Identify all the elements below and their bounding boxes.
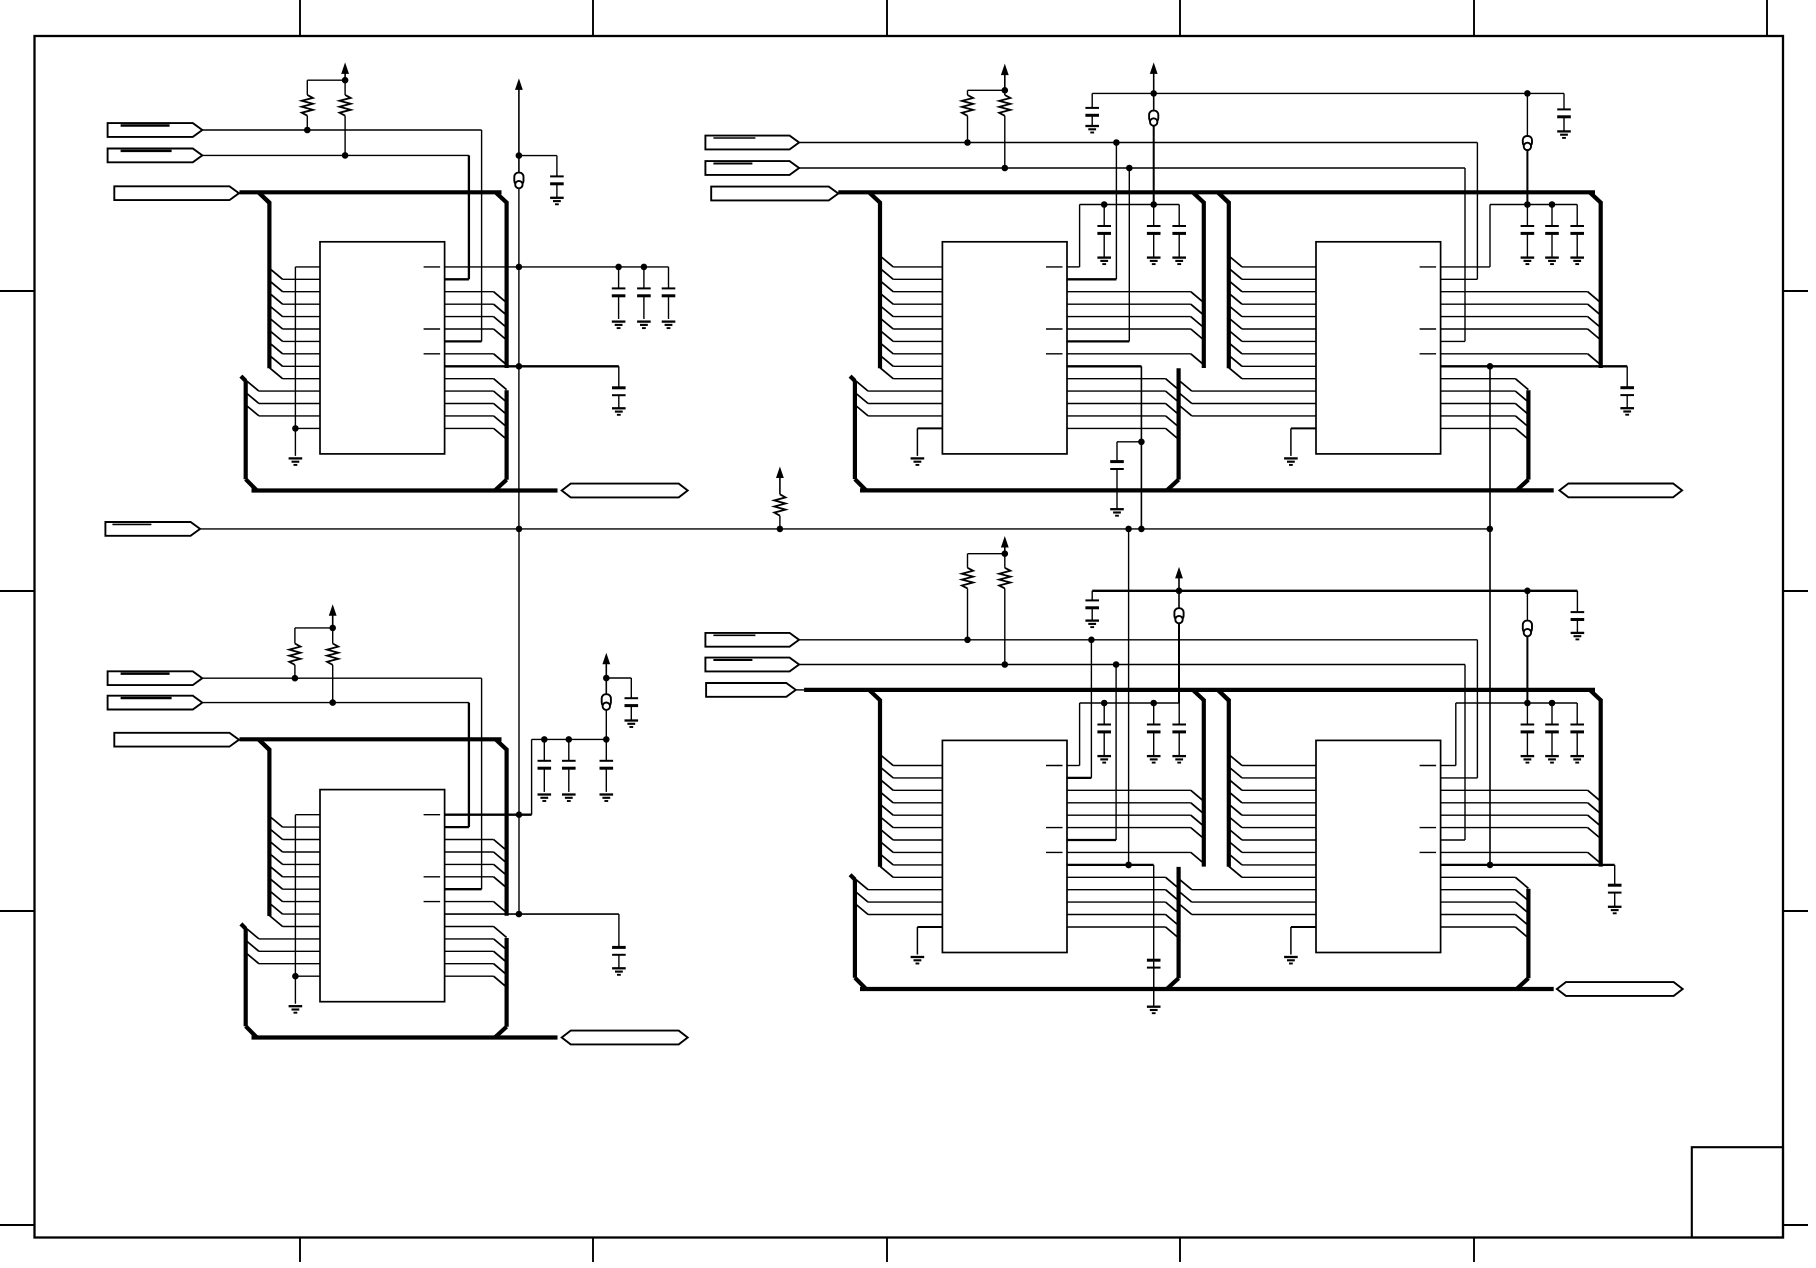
junction U2 pin 9 / VCC line (516, 911, 523, 918)
wire U1 net B horizontal (202, 154, 469, 156)
ground U2 bypass C3 (600, 795, 614, 802)
junction U2 bypass C1 (541, 736, 548, 743)
bus U3 upper-right chamfer (1193, 192, 1205, 203)
bus entries U4 left address pins (1229, 256, 1242, 379)
bus U3/U4 top horizontal (838, 190, 1595, 194)
wire U1 pull-up tops (307, 80, 345, 95)
wire U3 R-A bottom (967, 116, 969, 143)
bus U5 upper-left chamfer (869, 690, 881, 701)
wire U1 pin row 14 (295, 427, 320, 429)
bus entries U4 lower right pins (1515, 379, 1528, 440)
ferrite bead FB2 (602, 694, 611, 710)
net flag U2 control in B (108, 696, 203, 710)
ground U3 pin 9 bypass (1110, 509, 1124, 516)
bus U3 upper-left chamfer (869, 192, 881, 203)
net flag U6 data bus out (1557, 982, 1683, 996)
bus U1 top horizontal (240, 190, 502, 194)
wire U1 pin 9 supply (445, 366, 619, 388)
wire rail drop to U5 pin 9 (1128, 529, 1130, 865)
ground U1 bypass C1 (612, 322, 626, 329)
wire U3 pull-up tops (968, 90, 1005, 95)
ground U2 left (289, 1006, 303, 1013)
wire U6 bead to caps (1526, 636, 1528, 703)
net flag U2 data bus out (562, 1031, 688, 1045)
wire U5 net B drop (1066, 665, 1116, 841)
bus U2 upper-right chamfer (496, 739, 508, 750)
wire U4 net B drop (1441, 168, 1465, 341)
resistor U3 R-B (999, 95, 1010, 116)
wire U1 R-B bottom (344, 116, 346, 156)
capacitor U3 bypass C1 (1097, 205, 1111, 258)
wire U5 pin 1 caps rail (1066, 703, 1179, 766)
junction U5 net B (1113, 661, 1120, 668)
junction U3 bead VCC line (1150, 90, 1157, 97)
wire U2 R-B bottom (332, 665, 334, 703)
power VCC arrow U5 pull-ups (1001, 536, 1009, 554)
bus U5 upper-left vertical (878, 699, 882, 866)
net flag AVDD rail (105, 522, 200, 536)
capacitor VCC filter right U4 (1557, 93, 1571, 130)
bus U5 lower-left vertical (850, 875, 866, 989)
wires U3 lower-left pins (868, 391, 942, 416)
capacitor U1 bypass C2 (637, 267, 651, 319)
bus U5/U6 top horizontal (804, 688, 1595, 692)
junction U1 pin 9 / VCC line (516, 363, 523, 370)
wire U2 net A vertical to pin 7 (445, 678, 482, 889)
wires U2 right data pins (445, 840, 494, 902)
wire U4 ground pin L (1291, 428, 1316, 456)
ferrite bead U5 (1174, 608, 1183, 623)
net flag U1 address bus in (114, 186, 239, 200)
net flag U3 control in A (705, 136, 799, 150)
junction U5 bead VCC line (1176, 588, 1183, 595)
junction U1 bypass C1 (615, 264, 622, 271)
wire U2 net B horizontal (202, 702, 469, 704)
capacitor U5 bypass C2 (1147, 703, 1161, 756)
bus U3 upper-left vertical (878, 202, 882, 368)
wire U4 pin 9 supply (1441, 366, 1628, 387)
junction U3 R-B (1002, 165, 1009, 172)
bus U2 lower-right vertical (495, 938, 507, 1038)
junction U1 R-A net A (304, 127, 311, 134)
wires U3 right data pins (1067, 292, 1191, 354)
capacitor U4 bypass C1 (1521, 205, 1535, 258)
ground U3 left (911, 458, 925, 465)
ground U5 bypass C2 (1147, 756, 1161, 763)
wires U4 lower-left pins (1192, 391, 1316, 416)
ground U5 pin 9 bypass (1147, 1007, 1161, 1014)
junction U3 net A (1113, 139, 1120, 146)
ground U1 bypass C3 (662, 322, 676, 329)
wire U3 net B horizontal (799, 167, 1465, 169)
ground U1 bypass C2 (637, 322, 651, 329)
junction U5 pull-up top (1002, 550, 1009, 557)
wire U4 bead to caps (1526, 150, 1528, 205)
wire U1 pin row 1 to ground rail (295, 266, 320, 268)
wires U1 lower-left pins (259, 391, 320, 416)
wire U6 pin 1 caps rail (1441, 703, 1578, 766)
wire U6 net B drop (1441, 665, 1465, 841)
bus U1 upper-right vertical (505, 202, 509, 368)
ground U4 bypass C2 (1545, 258, 1559, 265)
ground VCC filter right U6 (1571, 633, 1585, 640)
wires U2 left address pins (283, 827, 320, 926)
wire U5 R-A bottom (967, 588, 969, 639)
junction U5 pin 9 (1125, 862, 1132, 869)
capacitor U2 bypass C1 (538, 739, 552, 792)
wires U2 lower-left pins (259, 939, 320, 964)
wire U1 VCC line below bead (518, 188, 520, 529)
net flag U2 control in A (108, 671, 203, 685)
junction U2 bead caps line (603, 736, 610, 743)
resistor U5 R-B (999, 568, 1010, 589)
power VCC arrow U2 (602, 653, 610, 694)
ground U3 bypass C3 (1172, 258, 1186, 265)
bus entries U1 left address pins (269, 268, 282, 378)
wire U2 R-A bottom (294, 665, 296, 678)
ground U2 VCC filter (625, 721, 639, 728)
power VCC arrow rail pull-up (776, 467, 784, 495)
ground U2 bypass C1 (538, 795, 552, 802)
junction U5 bypass C2 (1150, 700, 1157, 707)
power VCC arrow U5 (1175, 567, 1183, 608)
wire U2 pin 1 VCC row (445, 814, 532, 816)
capacitor U6 bypass C1 (1521, 703, 1535, 756)
resistor U5 R-A (962, 568, 973, 589)
junction U1 bypass C2 (641, 264, 648, 271)
wire U2 net B vertical to pin 2 (445, 703, 469, 828)
junction rail pull-up (777, 526, 784, 533)
bus U2 left chamfer (259, 739, 270, 750)
bus U6 lower-right vertical (1517, 889, 1529, 989)
IC U4 pin-name overlines (1420, 267, 1437, 354)
bus U5 lower-right vertical (1167, 867, 1179, 989)
resistor U3 R-A (962, 95, 973, 116)
bus entries U6 left address pins (1229, 755, 1242, 878)
ground U5 left (911, 957, 925, 964)
bus U5 upper-right chamfer (1193, 690, 1205, 701)
wire U2 caps-line riser (531, 739, 533, 814)
junction U4 bypass C2 (1549, 201, 1556, 208)
bus U3 upper-right vertical (1202, 202, 1206, 368)
junction U1 pull-up top (342, 77, 349, 84)
net flag U3 control in B (705, 161, 799, 175)
bus U2 top horizontal (240, 737, 502, 741)
IC U3 memory chip (942, 242, 1067, 454)
bus U1 upper-right chamfer (496, 192, 508, 203)
junction U3 pull-up top (1002, 87, 1009, 94)
power VCC arrow U2 pull-ups (329, 604, 337, 628)
IC U1 pin-name overlines (424, 267, 441, 354)
ground U4 bypass C1 (1521, 258, 1535, 265)
wire U3 R-B bottom (1004, 116, 1006, 168)
capacitor VCC filter right U6 (1571, 591, 1585, 633)
capacitor U2 pin 9 bypass (612, 947, 626, 967)
wire U5 bead to caps (1178, 623, 1180, 703)
bus U1 bottom horizontal (252, 488, 558, 492)
wire U2 pin 9 supply (445, 914, 619, 947)
net flag U1 data bus out (562, 484, 688, 498)
wire U5 R-B bottom (1004, 588, 1006, 664)
capacitor U4 bypass C3 (1570, 205, 1584, 258)
bus entries U5 left address pins (880, 755, 893, 878)
junction U5 R-A (964, 637, 971, 644)
wire U2 pull-up tops (295, 628, 333, 644)
junction U6 bypass C1 (1524, 700, 1531, 707)
net flag U5 address bus in (706, 683, 796, 697)
junction U6 pin 9 inter-block (1487, 862, 1494, 869)
ground VCC filter left U3 (1085, 126, 1099, 133)
ground U3 bypass C2 (1147, 258, 1161, 265)
bus U1 upper-left vertical (267, 202, 271, 368)
bus U3/U4 bottom horizontal (860, 488, 1554, 492)
wires U6 right data pins (1441, 790, 1588, 852)
capacitor U1 pin 9 bypass (612, 388, 626, 408)
junction U1 VCC line pin 1 (516, 264, 523, 271)
capacitor U5 bypass C3 (1172, 703, 1186, 756)
wire U3 ground pin L (917, 428, 942, 456)
bus U6 upper-right vertical (1599, 699, 1603, 866)
bus U4 left chamfer (1218, 192, 1229, 203)
bus U1 lower-right vertical (495, 390, 507, 490)
IC U2 pin-name overlines (424, 815, 441, 902)
bus U4 lower-right vertical (1517, 390, 1529, 490)
wire U6 pin 9 supply (1441, 865, 1615, 885)
bus U2 lower-left vertical (241, 924, 257, 1038)
wire U5 pull-up tops (968, 554, 1005, 568)
wire U2 ground rail vertical (294, 815, 296, 1004)
junction U6 bead VCC line (1524, 588, 1531, 595)
bus entries U1 lower right pins (494, 379, 507, 440)
wire U3 bead to caps (1153, 126, 1155, 205)
junction U2 pull-up top (329, 625, 336, 632)
bus U3 lower-right vertical (1167, 368, 1179, 490)
wire U5 net A drop (1066, 640, 1091, 778)
bus entries U5 right data pins (1191, 790, 1204, 863)
IC U1 memory chip (320, 242, 445, 454)
wires U3 lower right pins (1067, 379, 1166, 429)
ferrite bead FB1 (514, 173, 523, 189)
wire U3 net A horizontal (799, 142, 1477, 144)
junction U5 R-B (1002, 661, 1009, 668)
wire U3 pin 9 cap tee (1117, 441, 1141, 443)
junction U2 VCC branch (603, 675, 610, 682)
bus U1 upper-left chamfer (258, 192, 270, 203)
title block (1692, 1147, 1783, 1237)
junction U2 R-B net B (329, 699, 336, 706)
bus U6 upper-left chamfer (1218, 690, 1230, 701)
ground U5 bypass C1 (1097, 756, 1111, 763)
net flag U5 control in A (705, 633, 799, 647)
power VCC arrow U3 pull-ups (1001, 64, 1009, 91)
bus U2 upper-left vertical (267, 749, 271, 916)
wire VCC rail drop to U2 (518, 529, 520, 914)
wire U6 bead top (1526, 591, 1528, 621)
ground U1 VCC filter (550, 198, 564, 205)
junction U4 pin 9 inter-block (1487, 363, 1494, 370)
wire U1 R-A bottom (306, 116, 308, 130)
capacitor U5 bypass C1 (1097, 703, 1111, 756)
wire rail pull-up bottom (779, 516, 781, 529)
junction rail drop U5 (1125, 526, 1132, 533)
bus entries U3 left address pins (880, 256, 893, 379)
wire U5 bus flag stub (796, 689, 806, 691)
bus U4 upper-right chamfer (1590, 192, 1602, 203)
capacitor U3 pin 9 bypass (1110, 442, 1124, 509)
bus U2 upper-left chamfer (258, 739, 270, 750)
wire U1 net A vertical to pin 7 (445, 130, 482, 341)
wire U3 net A drop (1066, 143, 1116, 280)
bus U5/U6 bottom horizontal (860, 987, 1554, 991)
ground U6 bypass C2 (1545, 756, 1559, 763)
wire U5 ground pin L (917, 927, 942, 955)
ground U6 pin 9 bypass (1608, 907, 1622, 914)
junction U5 net A (1088, 637, 1095, 644)
wires U6 lower right pins (1441, 877, 1516, 927)
wire VCC distribution U5/U6 (1092, 590, 1577, 592)
wire U5 net B horizontal (799, 664, 1465, 666)
capacitor U6 bypass C3 (1570, 703, 1584, 756)
junction U2 R-A net A (292, 675, 299, 682)
capacitor U4 pin 9 bypass (1620, 388, 1634, 408)
wire U5 pin 9 supply (1066, 865, 1153, 1004)
power VCC arrow U1 pull-ups (341, 62, 349, 80)
wires U2 lower right pins (445, 927, 494, 977)
wire U5 net A horizontal (799, 639, 1477, 641)
capacitor U1 VCC filter (550, 176, 564, 197)
bus U4 upper-right vertical (1599, 202, 1603, 368)
wires U4 lower right pins (1441, 379, 1516, 429)
bus U2 upper-right vertical (505, 749, 509, 916)
bus entries U6 lower-left pins (1179, 879, 1192, 915)
ground U6 left (1284, 957, 1298, 964)
junction U4 bypass C1 (1524, 201, 1531, 208)
capacitor U4 bypass C2 (1545, 205, 1559, 258)
junction U1 VCC branch (516, 152, 523, 159)
bus entries U5 lower-left pins (855, 879, 868, 915)
wires U1 right data pins (445, 292, 494, 354)
junction U4 bead VCC line (1524, 90, 1531, 97)
bus entries U6 lower right pins (1515, 877, 1528, 938)
ferrite bead U4 (1523, 136, 1532, 150)
net flag U2 address bus in (114, 733, 239, 747)
wire U3 pin 9 supply (1066, 366, 1141, 529)
IC U5 memory chip (942, 740, 1067, 952)
net flag U1 control in B (108, 149, 203, 163)
wire U1 net A horizontal (202, 129, 481, 131)
resistor U1 R-B (340, 95, 351, 116)
wires U5 lower right pins (1067, 877, 1166, 927)
bus entries U3 lower right pins (1166, 379, 1179, 440)
wires U1 lower right pins (445, 379, 494, 429)
ferrite bead U3 (1149, 111, 1158, 126)
capacitor VCC filter left U5 (1085, 591, 1099, 620)
wires U5 lower-left pins (868, 890, 942, 915)
junction U6 bypass C2 (1549, 700, 1556, 707)
ground U1 pin 9 bypass (612, 408, 626, 415)
resistor U1 R-A (302, 95, 313, 116)
wire U2 caps line (532, 738, 607, 740)
junction U5 pin 9 (1125, 862, 1132, 869)
wires U3 left address pins (893, 267, 942, 379)
ground U1 left (289, 458, 303, 465)
wires U1 left address pins (283, 279, 320, 378)
capacitor U5 pin 9 bypass (1147, 960, 1161, 1006)
IC U2 memory chip (320, 790, 445, 1002)
capacitor U3 bypass C2 (1147, 205, 1161, 258)
wire U3 pin 1 caps rail (1066, 205, 1179, 267)
bus entries U2 right data pins (494, 840, 507, 913)
junction rail drop (516, 526, 523, 533)
ground U4 left (1284, 458, 1298, 465)
net flag U1 control in A (108, 123, 203, 137)
IC U6 memory chip (1316, 740, 1441, 952)
ground U6 bypass C1 (1521, 756, 1535, 763)
wire U2 VCC branch to cap (606, 678, 631, 698)
ground VCC filter right U4 (1557, 131, 1571, 138)
junction U5 bypass C1 (1101, 700, 1108, 707)
wire U1 VCC branch to cap (519, 156, 557, 177)
bus U4 upper-left vertical (1227, 202, 1231, 368)
junction U3 pin 9 tee (1138, 439, 1145, 446)
capacitor U1 bypass C3 (662, 267, 676, 319)
bus entries U4 right data pins (1588, 292, 1601, 365)
ground VCC filter left U5 (1085, 621, 1099, 628)
junction U3 bypass C2 (1150, 201, 1157, 208)
junction U3 net B (1126, 165, 1133, 172)
junction U3 bypass C1 (1101, 201, 1108, 208)
bus U1 left chamfer (259, 192, 270, 203)
wire U2 bead to caps line (605, 710, 607, 740)
bus U4 upper-left chamfer (1218, 192, 1230, 203)
ground U3 bypass C1 (1097, 258, 1111, 265)
wires U6 left address pins (1242, 766, 1316, 878)
bus entries U2 lower-left pins (246, 928, 259, 964)
wires U5 left address pins (893, 766, 942, 878)
wire U4 net A drop (1441, 143, 1478, 280)
capacitor VCC filter left U3 (1085, 93, 1099, 125)
wire U4 pin 1 caps rail (1441, 205, 1578, 267)
IC U5 pin-name overlines (1046, 766, 1063, 853)
bus U5 upper-right vertical (1202, 699, 1206, 866)
ground U6 bypass C3 (1570, 756, 1584, 763)
IC U4 memory chip (1316, 242, 1441, 454)
junction U2 bypass C2 (566, 736, 573, 743)
capacitor U2 bypass C3 (600, 739, 614, 792)
junction U2 ground rail (292, 973, 299, 980)
wire U2 pin row 14 (295, 975, 320, 977)
wire U6 net A drop (1441, 640, 1478, 778)
capacitor U1 bypass C1 (612, 267, 626, 319)
capacitor U6 bypass C2 (1545, 703, 1559, 756)
wire U6 ground pin L (1291, 927, 1316, 955)
wire U1 net B vertical to pin 2 (445, 155, 469, 279)
capacitor U6 pin 9 bypass (1608, 885, 1622, 906)
net flag U3 address bus in (711, 187, 838, 201)
junction rail U3 pin 9 feed (1138, 526, 1145, 533)
IC U3 pin-name overlines (1046, 267, 1063, 354)
power VCC arrow U3 (1150, 62, 1158, 110)
wire U2 net A horizontal (202, 677, 481, 679)
resistor U2 R-A (289, 644, 300, 665)
wire U1 pin 1 VCC row (445, 266, 669, 268)
ferrite bead U6 (1523, 621, 1532, 637)
wires U4 right data pins (1441, 292, 1588, 354)
net flag U5 control in B (705, 658, 799, 672)
resistor U2 R-B (327, 644, 338, 665)
capacitor U2 bypass C2 (562, 739, 576, 792)
junction U1 R-B net B (342, 152, 349, 159)
